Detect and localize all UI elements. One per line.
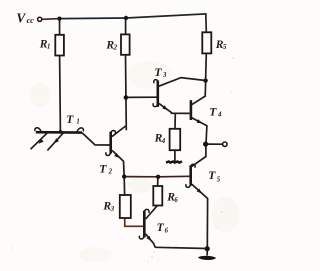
- svg-text:V: V: [16, 11, 26, 26]
- svg-text:2: 2: [113, 45, 118, 52]
- svg-text:2: 2: [108, 169, 113, 176]
- svg-text:1: 1: [76, 119, 79, 126]
- svg-text:cc: cc: [27, 16, 35, 25]
- svg-text:T: T: [157, 221, 165, 234]
- svg-text:4: 4: [161, 138, 166, 145]
- svg-text:3: 3: [110, 206, 115, 213]
- svg-text:T: T: [66, 113, 74, 126]
- svg-text:3: 3: [162, 72, 167, 79]
- svg-text:5: 5: [223, 44, 227, 51]
- svg-text:6: 6: [165, 227, 169, 234]
- svg-text:T: T: [154, 66, 162, 79]
- svg-text:6: 6: [174, 197, 178, 204]
- svg-text:T: T: [99, 163, 107, 176]
- svg-text:4: 4: [217, 111, 222, 118]
- svg-text:T: T: [208, 169, 216, 182]
- svg-text:T: T: [209, 105, 217, 118]
- svg-text:5: 5: [217, 177, 221, 184]
- svg-text:1: 1: [47, 43, 50, 50]
